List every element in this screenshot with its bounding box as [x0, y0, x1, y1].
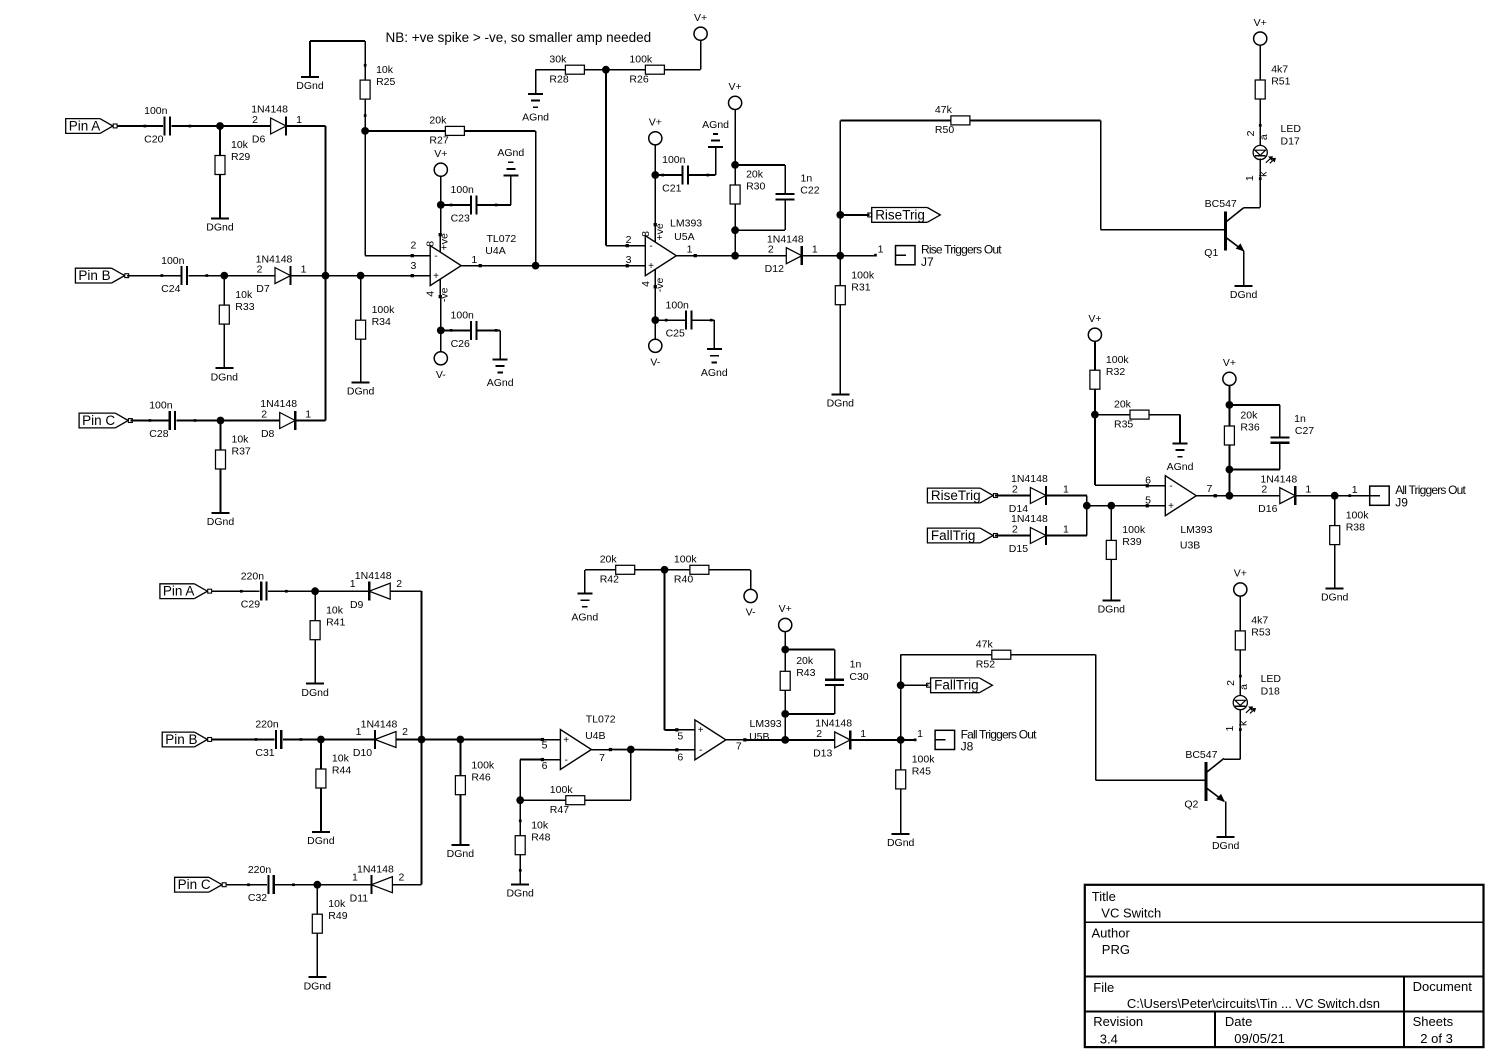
svg-text:5: 5 — [542, 740, 548, 752]
svg-text:BC547: BC547 — [1205, 198, 1237, 210]
svg-text:-: - — [1169, 481, 1172, 492]
ground DGnd — [447, 845, 475, 860]
svg-text:Date: Date — [1225, 1014, 1252, 1029]
svg-text:1: 1 — [352, 871, 358, 883]
node N4 — [357, 272, 365, 280]
wire — [1094, 389, 1096, 485]
resistor R49 — [312, 885, 347, 934]
node N8 — [437, 201, 445, 209]
resistor R37 — [216, 421, 251, 470]
wire — [519, 855, 522, 885]
note text — [386, 30, 652, 45]
svg-text:DGnd: DGnd — [1098, 604, 1126, 616]
diode D7 — [256, 253, 307, 295]
power V+ — [649, 117, 662, 145]
wire — [441, 330, 500, 359]
svg-text:100k: 100k — [372, 304, 396, 316]
port FallTrig — [927, 678, 993, 693]
capacitor C23 — [450, 184, 498, 224]
wire — [840, 119, 951, 121]
wire — [1239, 650, 1242, 697]
wire — [320, 788, 322, 832]
op-amp U5A — [626, 218, 703, 293]
svg-text:10k: 10k — [332, 753, 350, 765]
resistor R41 — [310, 591, 345, 640]
node N2 — [220, 272, 228, 280]
node N17 — [836, 211, 844, 219]
svg-text:1: 1 — [878, 243, 884, 255]
svg-text:DGnd: DGnd — [304, 980, 332, 992]
svg-text:1: 1 — [1063, 483, 1069, 495]
wire — [734, 204, 736, 256]
svg-text:1n: 1n — [801, 173, 813, 185]
node N35 — [781, 736, 789, 744]
svg-text:D17: D17 — [1281, 136, 1300, 148]
node N7 — [532, 262, 540, 270]
wire — [441, 176, 511, 205]
svg-text:a: a — [1258, 134, 1270, 140]
op-amp U4B — [541, 713, 616, 771]
LED D18 — [1224, 673, 1281, 731]
node N33 — [781, 646, 789, 654]
wire — [665, 570, 677, 730]
svg-text:V+: V+ — [649, 117, 662, 129]
wire — [585, 570, 616, 594]
svg-text:J8: J8 — [961, 740, 974, 754]
svg-text:R25: R25 — [376, 76, 395, 88]
resistor R26 — [629, 53, 664, 85]
capacitor C25 — [665, 299, 713, 339]
svg-text:R26: R26 — [629, 73, 648, 85]
resistor R43 — [780, 650, 815, 691]
svg-text:Author: Author — [1092, 925, 1131, 940]
resistor R29 — [215, 126, 250, 175]
svg-text:4: 4 — [425, 291, 437, 297]
port FallTrig — [927, 528, 997, 543]
ground AGnd — [497, 147, 524, 175]
node N1 — [216, 122, 224, 130]
svg-text:k: k — [1257, 171, 1269, 177]
wire — [459, 795, 461, 845]
ground DGnd — [1098, 600, 1126, 615]
svg-text:R35: R35 — [1114, 418, 1133, 430]
wire — [219, 175, 221, 219]
svg-text:100n: 100n — [161, 255, 185, 267]
capacitor C32 — [247, 864, 295, 904]
wire — [172, 125, 271, 127]
svg-text:1: 1 — [1244, 175, 1256, 181]
svg-text:LM393: LM393 — [750, 718, 782, 730]
svg-text:V-: V- — [650, 356, 660, 368]
wire — [584, 69, 645, 71]
svg-text:V-: V- — [436, 369, 446, 381]
wire — [654, 145, 656, 175]
svg-text:20k: 20k — [796, 655, 814, 667]
svg-text:R45: R45 — [912, 766, 931, 778]
wire — [536, 70, 566, 94]
svg-text:FallTrig: FallTrig — [931, 528, 976, 543]
svg-text:C24: C24 — [161, 283, 180, 295]
node N5 — [217, 417, 225, 425]
svg-text:2: 2 — [1245, 130, 1257, 136]
svg-text:+: + — [1168, 501, 1174, 512]
svg-text:1: 1 — [860, 728, 866, 740]
wire — [1334, 545, 1336, 589]
wire — [189, 275, 276, 277]
diode D11 — [350, 864, 405, 905]
wire — [1229, 405, 1279, 437]
svg-text:5: 5 — [1145, 494, 1151, 506]
svg-text:D11: D11 — [350, 892, 369, 904]
wire — [900, 655, 902, 740]
svg-text:Q1: Q1 — [1204, 247, 1218, 259]
svg-text:1: 1 — [1224, 726, 1236, 732]
svg-text:10k: 10k — [376, 64, 394, 76]
svg-text:R29: R29 — [231, 151, 250, 163]
wire — [904, 684, 928, 686]
power V+ — [1254, 17, 1267, 45]
svg-text:1N4148: 1N4148 — [355, 570, 392, 582]
svg-text:C22: C22 — [800, 185, 819, 197]
svg-text:V+: V+ — [729, 81, 742, 93]
node N9 — [437, 327, 445, 335]
node N32 — [661, 566, 669, 574]
svg-text:1N4148: 1N4148 — [357, 864, 394, 876]
svg-text:8: 8 — [640, 231, 652, 237]
transistor Q1 — [1204, 198, 1243, 259]
svg-text:AGnd: AGnd — [571, 611, 598, 623]
node N30 — [516, 796, 524, 804]
svg-text:LM393: LM393 — [670, 218, 702, 230]
ground DGnd — [347, 383, 375, 398]
wire — [295, 420, 325, 422]
diode D6 — [251, 104, 302, 146]
power V+ — [1223, 357, 1236, 385]
svg-text:C25: C25 — [666, 328, 685, 340]
resistor R39 — [1106, 506, 1146, 560]
resistor R36 — [1224, 405, 1259, 445]
svg-text:100n: 100n — [149, 400, 173, 412]
svg-text:2: 2 — [402, 726, 408, 738]
ground DGnd — [296, 77, 324, 92]
svg-text:47k: 47k — [976, 638, 994, 650]
svg-text:C27: C27 — [1295, 425, 1314, 437]
wire — [440, 297, 442, 331]
svg-text:VC Switch: VC Switch — [1101, 905, 1161, 920]
resistor R38 — [1330, 496, 1370, 545]
svg-text:+ve: +ve — [439, 233, 451, 250]
svg-text:8: 8 — [425, 241, 437, 247]
wire — [734, 110, 736, 165]
capacitor C21 — [661, 154, 709, 194]
svg-text:R34: R34 — [372, 316, 391, 328]
resistor R34 — [356, 276, 396, 340]
svg-text:D7: D7 — [256, 283, 270, 295]
svg-text:2 of 3: 2 of 3 — [1420, 1031, 1453, 1046]
svg-text:FallTrig: FallTrig — [934, 678, 979, 693]
ground AGnd — [571, 594, 598, 624]
wire — [177, 420, 280, 422]
title block — [1085, 885, 1484, 1047]
port Pin B — [162, 732, 211, 747]
resistor R51 — [1255, 64, 1290, 99]
svg-text:10k: 10k — [231, 139, 249, 151]
wire — [1149, 415, 1180, 444]
wire — [784, 632, 786, 650]
wire — [365, 255, 412, 257]
node N12 — [651, 316, 659, 324]
svg-text:1: 1 — [471, 254, 477, 266]
node N24 — [1331, 492, 1339, 500]
wire — [127, 275, 180, 277]
svg-text:-: - — [434, 251, 437, 262]
svg-text:AGnd: AGnd — [522, 112, 549, 124]
svg-text:U4A: U4A — [485, 245, 505, 257]
ground DGnd — [887, 834, 915, 849]
wire — [360, 339, 362, 382]
svg-text:-: - — [649, 241, 652, 252]
wire — [655, 147, 715, 175]
svg-text:C20: C20 — [144, 134, 163, 146]
svg-text:V+: V+ — [1254, 17, 1267, 29]
svg-text:100k: 100k — [471, 759, 495, 771]
svg-text:File: File — [1093, 980, 1114, 995]
svg-text:20k: 20k — [1114, 398, 1132, 410]
svg-text:+: + — [433, 271, 439, 282]
svg-text:2: 2 — [396, 578, 402, 590]
svg-text:V+: V+ — [1088, 313, 1101, 325]
wire — [695, 255, 786, 257]
svg-text:DGnd: DGnd — [447, 848, 475, 860]
svg-text:C23: C23 — [451, 212, 470, 224]
wire — [1110, 559, 1112, 600]
svg-text:2: 2 — [261, 408, 267, 420]
resistor R46 — [455, 740, 495, 795]
svg-text:1: 1 — [1063, 523, 1069, 535]
svg-text:1n: 1n — [850, 659, 862, 671]
op-amp U4A — [410, 233, 516, 302]
svg-text:1: 1 — [356, 726, 362, 738]
svg-text:C31: C31 — [255, 747, 274, 759]
svg-text:Document: Document — [1413, 979, 1473, 994]
wire — [1087, 505, 1148, 507]
svg-text:220n: 220n — [241, 570, 265, 582]
svg-text:R32: R32 — [1106, 366, 1125, 378]
svg-text:R51: R51 — [1271, 76, 1290, 88]
wire — [464, 131, 535, 266]
svg-text:Pin B: Pin B — [78, 268, 110, 283]
wire — [390, 590, 421, 592]
ground DGnd — [827, 394, 855, 409]
wire — [606, 70, 627, 246]
connector J9 — [1348, 483, 1466, 509]
capacitor C20 — [144, 105, 192, 145]
svg-text:2: 2 — [1012, 523, 1018, 535]
power V+ — [1234, 568, 1247, 596]
node N22 — [1226, 466, 1234, 474]
wire — [421, 591, 423, 885]
ground DGnd — [207, 513, 235, 528]
node N28 — [457, 736, 465, 744]
wire — [1228, 445, 1230, 496]
svg-text:R39: R39 — [1122, 536, 1141, 548]
node N3 — [322, 272, 330, 280]
svg-text:20k: 20k — [1240, 410, 1258, 422]
svg-text:RiseTrig: RiseTrig — [875, 207, 925, 222]
wire — [995, 535, 1030, 537]
svg-text:100k: 100k — [851, 269, 875, 281]
svg-text:47k: 47k — [935, 104, 953, 116]
transistor Q2 — [1184, 749, 1224, 810]
svg-text:7: 7 — [599, 752, 605, 764]
svg-text:C21: C21 — [662, 183, 681, 195]
capacitor C30 — [825, 659, 869, 686]
svg-text:DGnd: DGnd — [307, 835, 335, 847]
diode D14 — [1009, 473, 1069, 515]
wire — [520, 799, 566, 801]
wire — [839, 305, 841, 395]
svg-text:2: 2 — [626, 234, 632, 246]
svg-text:+: + — [648, 261, 654, 272]
svg-text:1: 1 — [350, 578, 356, 590]
port Pin A — [160, 584, 212, 599]
svg-text:09/05/21: 09/05/21 — [1234, 1031, 1285, 1046]
wire — [655, 320, 714, 349]
wire — [212, 590, 260, 592]
resistor R52 — [976, 638, 1011, 670]
svg-text:+ve: +ve — [654, 223, 666, 240]
svg-text:C:\Users\Peter\circuits\Tin ..: C:\Users\Peter\circuits\Tin ... VC Switc… — [1127, 996, 1380, 1011]
power V- — [434, 352, 447, 381]
svg-text:4: 4 — [640, 281, 652, 287]
svg-text:D13: D13 — [813, 747, 832, 759]
ground DGnd — [1321, 589, 1349, 604]
svg-text:DGnd: DGnd — [827, 398, 855, 410]
svg-text:AGnd: AGnd — [497, 147, 524, 159]
ground DGnd — [1230, 286, 1258, 301]
svg-text:1: 1 — [296, 114, 302, 126]
wire — [291, 275, 413, 277]
svg-text:Revision: Revision — [1093, 1014, 1143, 1029]
node N16 — [836, 252, 844, 260]
op-amp U3B — [1145, 474, 1217, 551]
wire — [1046, 496, 1087, 536]
svg-text:DGnd: DGnd — [887, 837, 915, 849]
svg-text:R42: R42 — [600, 574, 619, 586]
ground DGnd — [307, 832, 335, 847]
wire — [440, 176, 442, 205]
wire — [365, 130, 445, 132]
resistor R31 — [835, 256, 875, 305]
wire — [1244, 159, 1262, 208]
svg-text:V+: V+ — [434, 148, 447, 160]
svg-text:a: a — [1238, 684, 1250, 690]
wire — [654, 287, 656, 320]
svg-text:1: 1 — [305, 408, 311, 420]
wire — [901, 654, 992, 656]
svg-text:2: 2 — [252, 114, 258, 126]
node N18 — [1091, 411, 1099, 419]
wire — [212, 739, 275, 741]
svg-text:D10: D10 — [353, 747, 372, 759]
svg-text:R30: R30 — [746, 181, 765, 193]
svg-text:J7: J7 — [921, 255, 934, 269]
wire — [802, 255, 875, 257]
svg-text:D8: D8 — [261, 428, 275, 440]
wire — [223, 324, 225, 368]
svg-text:TL072: TL072 — [586, 713, 616, 725]
power V+ — [434, 148, 447, 176]
node N29 — [313, 881, 321, 889]
svg-text:1: 1 — [687, 244, 693, 256]
wire — [850, 739, 915, 741]
svg-text:DGnd: DGnd — [347, 386, 375, 398]
ground AGnd — [522, 94, 549, 124]
svg-text:1: 1 — [301, 264, 307, 276]
svg-text:10k: 10k — [328, 898, 346, 910]
wire — [1259, 99, 1262, 146]
resistor R50 — [935, 104, 970, 136]
svg-text:-: - — [565, 755, 568, 766]
svg-text:R40: R40 — [674, 574, 693, 586]
wire — [1094, 341, 1096, 370]
power V+ — [729, 81, 742, 109]
svg-text:R47: R47 — [550, 804, 569, 816]
svg-text:100k: 100k — [629, 53, 653, 65]
wire — [664, 41, 700, 70]
wire — [610, 749, 677, 751]
resistor R33 — [219, 276, 254, 325]
svg-text:100k: 100k — [1346, 509, 1370, 521]
svg-text:C32: C32 — [248, 892, 267, 904]
svg-text:AGnd: AGnd — [701, 367, 728, 379]
wire — [1095, 414, 1130, 416]
port RiseTrig — [927, 488, 997, 503]
svg-text:DGnd: DGnd — [296, 80, 324, 92]
wire — [735, 165, 785, 194]
svg-text:2: 2 — [410, 240, 416, 252]
svg-text:20k: 20k — [600, 554, 618, 566]
svg-text:U5A: U5A — [674, 231, 694, 243]
diode D15 — [1009, 513, 1069, 555]
svg-text:DGnd: DGnd — [206, 222, 234, 234]
resistor R28 — [549, 53, 584, 85]
wire — [364, 99, 367, 256]
wire — [1046, 535, 1087, 537]
svg-text:10k: 10k — [235, 289, 253, 301]
node N20 — [1107, 502, 1115, 510]
capacitor C26 — [450, 310, 498, 350]
svg-text:R50: R50 — [935, 124, 954, 136]
svg-text:DGnd: DGnd — [301, 687, 329, 699]
svg-text:2: 2 — [816, 728, 822, 740]
svg-text:1: 1 — [812, 244, 818, 256]
svg-text:DGnd: DGnd — [1212, 840, 1240, 852]
node N37 — [897, 681, 905, 689]
svg-text:R49: R49 — [328, 910, 347, 922]
svg-text:R37: R37 — [232, 446, 251, 458]
svg-text:DGnd: DGnd — [1321, 592, 1349, 604]
svg-text:4k7: 4k7 — [1271, 64, 1288, 76]
svg-text:1n: 1n — [1294, 413, 1306, 425]
capacitor C29 — [240, 570, 288, 610]
svg-text:TL072: TL072 — [487, 233, 517, 245]
wire — [227, 884, 267, 886]
wire — [1225, 801, 1227, 836]
wire — [784, 690, 786, 740]
wire — [745, 739, 835, 741]
resistor R48 — [515, 800, 550, 855]
